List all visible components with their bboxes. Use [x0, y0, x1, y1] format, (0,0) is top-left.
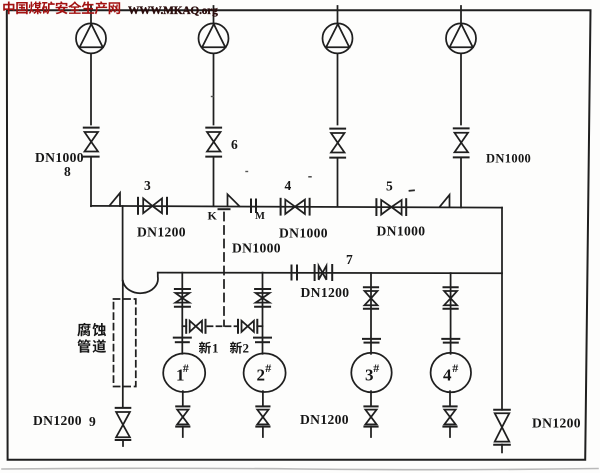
wire pump3 top: [337, 6, 339, 24]
flange well3: [363, 339, 380, 343]
valve 7 DN1200: [315, 265, 333, 280]
svg-text:2: 2: [243, 341, 250, 356]
flange well4: [442, 339, 459, 343]
pump P3: [323, 23, 353, 53]
wire pump2 top: [213, 6, 215, 24]
flange well1: [174, 338, 191, 343]
svg-text:M: M: [255, 211, 265, 222]
crossing hop arc: [123, 273, 158, 293]
svg-text:WWW.MKAQ.org: WWW.MKAQ.org: [128, 5, 218, 17]
label 新1: [199, 342, 211, 354]
scan speck near valve5: [410, 189, 415, 192]
wire well2 bottom: [262, 391, 264, 406]
well 1#: [163, 353, 205, 392]
valve 5 DN1000: [376, 199, 406, 215]
scan smudge bottom: [2, 468, 598, 469]
valve 8 DN1000: [84, 128, 99, 157]
svg-text:4: 4: [285, 178, 292, 193]
valve pump4 line DN1000: [454, 128, 469, 157]
gate valve well2 upper: [255, 289, 270, 307]
wire right header drop: [501, 208, 503, 410]
wire well3 bottom: [370, 391, 372, 406]
dashed link 新1-新2: [208, 325, 237, 327]
well 4#: [431, 353, 471, 393]
wire corroded pipe vertical: [122, 281, 124, 408]
svg-text:DN1200: DN1200: [300, 412, 349, 427]
svg-text:#: #: [183, 361, 189, 375]
svg-text:7: 7: [346, 252, 353, 267]
node K cap under check valve: [219, 208, 230, 210]
valve 6: [206, 128, 221, 157]
flange M: [251, 200, 256, 213]
svg-text:DN1200: DN1200: [33, 413, 82, 428]
wire main header line: [91, 206, 502, 208]
pump P4: [446, 23, 476, 53]
wire lower header line: [158, 272, 502, 275]
corroded pipe dashed box 腐蚀管道: [114, 299, 136, 387]
svg-text:#: #: [452, 361, 458, 375]
wire valve down to main line: [337, 159, 339, 207]
svg-text:DN1200: DN1200: [532, 416, 581, 431]
scan speck on pump2 line: [212, 96, 214, 98]
svg-text:DN1000: DN1000: [35, 150, 84, 165]
svg-text:9: 9: [89, 414, 96, 429]
valve 9 DN1200: [116, 408, 131, 446]
svg-text:3: 3: [144, 178, 151, 193]
gate valve well3 lower: [364, 406, 377, 437]
flange well2: [254, 338, 271, 343]
valve DN1200 right riser: [494, 410, 510, 453]
svg-text:DN1000: DN1000: [377, 224, 426, 239]
valve 新1: [182, 320, 205, 333]
flange pair lower header: [292, 266, 298, 280]
svg-text:K: K: [208, 209, 218, 223]
gate valve well2 lower: [256, 406, 269, 437]
dashed riser DN1000 from K: [223, 213, 225, 327]
watermark 中国煤矿安全生产网: [3, 1, 14, 14]
wire valve6 down to main line node K: [213, 158, 215, 207]
svg-text:DN1200: DN1200: [137, 225, 186, 240]
scan speck above valve4: [309, 176, 311, 178]
svg-text:2: 2: [257, 366, 266, 385]
wire pump2 to valve 6: [213, 54, 215, 125]
wire pump1 top: [90, 6, 92, 24]
label 腐蚀管道: [77, 323, 90, 336]
wire valve8 down to main line: [90, 158, 92, 207]
gate valve well4 upper: [444, 287, 458, 309]
gate valve well1 lower: [176, 406, 189, 437]
pump P2: [199, 23, 229, 53]
svg-text:DN1000: DN1000: [279, 226, 328, 241]
svg-text:DN1200: DN1200: [301, 285, 350, 300]
valve 3 DN1200: [138, 198, 167, 214]
wire pump4 top: [460, 6, 462, 24]
valve pump3 line: [330, 129, 345, 158]
svg-text:#: #: [265, 361, 271, 375]
gate valve well1 upper: [175, 289, 190, 307]
svg-text:8: 8: [64, 164, 71, 179]
check valve CV2 at node K: [228, 194, 240, 206]
svg-text:DN1000: DN1000: [232, 241, 281, 256]
svg-text:5: 5: [386, 179, 393, 194]
pump P1: [76, 23, 106, 53]
check valve CV1: [110, 193, 121, 206]
wire well4 bottom: [449, 391, 451, 406]
scan speck right of M: [246, 171, 248, 173]
wire well4 drop: [450, 273, 452, 354]
well 2#: [244, 353, 286, 392]
check valve CV3: [440, 195, 450, 207]
valve 新2: [238, 320, 263, 333]
wire pump4 to valve: [460, 54, 462, 125]
wire branch drop to lower header: [122, 206, 124, 280]
wire valve down to main line: [460, 158, 462, 207]
gate valve well4 lower: [443, 406, 456, 437]
svg-text:DN1000: DN1000: [486, 152, 531, 166]
wire pump3 to valve: [337, 54, 339, 125]
svg-text:1: 1: [212, 341, 219, 356]
wire well3 drop: [370, 273, 372, 354]
svg-text:#: #: [373, 361, 379, 375]
wire well2 drop: [262, 273, 264, 354]
wire well1 drop: [181, 273, 183, 354]
svg-text:4: 4: [443, 366, 452, 385]
wire pump1 to valve 8: [90, 54, 92, 125]
label 新2: [230, 342, 242, 354]
svg-text:6: 6: [231, 137, 238, 152]
valve 4 DN1000: [281, 199, 310, 215]
well 3#: [351, 353, 391, 393]
gate valve well3 upper: [364, 287, 378, 309]
wire well1 bottom: [182, 391, 184, 406]
